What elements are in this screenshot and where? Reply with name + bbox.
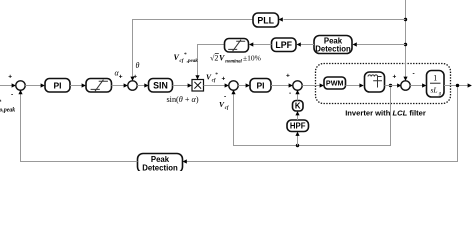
svg-text:*: * xyxy=(215,72,218,78)
block LPF xyxy=(272,38,297,52)
svg-text:Inverter with LCL filter: Inverter with LCL filter xyxy=(345,109,426,118)
node: junction to peak-detection line xyxy=(404,43,407,46)
svg-text:*: * xyxy=(0,100,2,106)
label V*o,peak (input, clipped at left edge) xyxy=(0,100,15,114)
svg-text:1: 1 xyxy=(433,74,437,83)
wire: S1 to PI1 xyxy=(25,83,45,87)
node: output junction xyxy=(456,84,459,87)
svg-text:-: - xyxy=(224,94,226,101)
label sqrt(2)Vnominal +/-10% xyxy=(210,54,261,65)
svg-text:cf: cf xyxy=(225,106,229,111)
wire: output grid current to right edge xyxy=(444,83,472,87)
svg-text:+: + xyxy=(286,73,290,80)
svg-text:+: + xyxy=(8,74,12,81)
wire: K up into S4 xyxy=(295,90,299,101)
wire: output feedback down right side to bottom Peak Detection xyxy=(183,87,458,164)
svg-text:+: + xyxy=(393,74,397,81)
multiplier (product) xyxy=(192,80,204,92)
svg-text:-: - xyxy=(413,71,415,78)
svg-text:-: - xyxy=(11,92,13,99)
svg-text:o,peak: o,peak xyxy=(0,108,15,114)
wire: saturation to summer S2 (alpha) xyxy=(112,83,128,87)
node Vcf (junction after LC filter) xyxy=(389,84,392,87)
block PI2 (voltage loop PI controller) xyxy=(250,79,271,93)
svg-text:±10%: ±10% xyxy=(243,54,261,63)
wire: grid voltage from top into S5 xyxy=(403,0,407,81)
block PLL xyxy=(253,13,279,27)
wire: multiplier to summer S3 xyxy=(204,83,229,87)
svg-text:V: V xyxy=(219,54,225,63)
wire: S2 to SIN xyxy=(137,83,148,87)
block Peak Detection (top) xyxy=(314,36,352,54)
block SIN xyxy=(149,79,173,93)
svg-text:HPF: HPF xyxy=(290,122,306,131)
svg-text:sL: sL xyxy=(431,86,438,95)
label V*cf,peak xyxy=(174,52,199,64)
svg-text:*: * xyxy=(184,52,187,58)
svg-text:,peak: ,peak xyxy=(186,59,198,64)
svg-text:sin(θ + α): sin(θ + α) xyxy=(167,95,199,104)
block 1/sLg (grid inductor admittance) xyxy=(427,71,445,98)
wire: SIN to multiplier xyxy=(173,83,192,87)
wire: LC filter to summer S5 xyxy=(385,83,402,87)
block PI1 (voltage amplitude PI controller) xyxy=(45,79,70,93)
block Peak Detection (bottom) xyxy=(138,154,183,173)
svg-text:√2: √2 xyxy=(210,54,218,63)
block saturation limiter 1 xyxy=(86,79,112,93)
dashed box: Inverter with LCL filter xyxy=(316,64,451,104)
svg-text:PLL: PLL xyxy=(257,15,274,25)
svg-text:PI: PI xyxy=(53,80,61,90)
summer S1 xyxy=(16,81,25,90)
summer S2 (theta + alpha) xyxy=(128,81,137,90)
node: junction to PLL line xyxy=(404,18,407,21)
svg-text:nominal: nominal xyxy=(225,59,242,64)
svg-text:PWM: PWM xyxy=(326,79,344,88)
label Vcf (measured capacitor voltage) xyxy=(219,100,229,111)
wire: Peak Detection to LPF xyxy=(297,42,315,46)
block LC filter (inductor + capacitor icon) xyxy=(365,72,385,92)
wire: S5 to 1/sLg xyxy=(410,83,426,87)
svg-text:K: K xyxy=(295,102,301,111)
wire: bottom Peak Detection output left and up into S1 xyxy=(18,90,137,162)
block saturation limiter 2 (nominal voltage +/-10%) xyxy=(225,39,249,53)
svg-text:θ: θ xyxy=(136,61,140,70)
svg-text:Detection: Detection xyxy=(142,163,178,171)
wire: PLL output theta down into S2 xyxy=(130,20,134,81)
svg-text:PI: PI xyxy=(256,80,264,90)
wire: HPF to K xyxy=(295,111,299,120)
wire: S3 to PI2 xyxy=(238,83,250,87)
wire: PI1 to saturation xyxy=(70,83,86,87)
wire: Vcf feedback from node down to bus, to S3 and HPF xyxy=(231,87,390,145)
block PWM xyxy=(324,77,346,89)
wire: amplitude reference down into multiplier xyxy=(195,45,224,80)
svg-text:cf: cf xyxy=(212,78,216,83)
wire: PLL feedback line (from grid node to PLL and to S2) xyxy=(133,17,406,22)
wire: PI2 to summer S4 xyxy=(271,83,293,87)
svg-text:+: + xyxy=(119,74,123,81)
wire: grid node to top Peak Detection xyxy=(353,42,406,46)
label Vcf* (instantaneous reference) xyxy=(206,72,218,83)
node: Vcf bus junction to HPF xyxy=(296,144,299,147)
summer S4 xyxy=(293,81,302,90)
svg-text:Detection: Detection xyxy=(315,45,351,54)
svg-text:+: + xyxy=(222,76,226,83)
svg-text:SIN: SIN xyxy=(153,81,168,91)
svg-text:LPF: LPF xyxy=(275,40,292,50)
wire: S4 to PWM xyxy=(302,83,324,87)
block HPF xyxy=(287,120,309,132)
block K (damping gain) xyxy=(293,101,304,112)
summer S5 xyxy=(401,81,410,90)
wire: bus up into HPF xyxy=(295,132,299,146)
wire: PWM to LC filter xyxy=(346,83,364,87)
summer S3 xyxy=(229,81,238,90)
svg-text:-: - xyxy=(289,90,291,97)
wire: LPF to saturation limiter 2 xyxy=(249,42,272,46)
wire: input V*o,peak into summer S1 xyxy=(0,83,16,87)
